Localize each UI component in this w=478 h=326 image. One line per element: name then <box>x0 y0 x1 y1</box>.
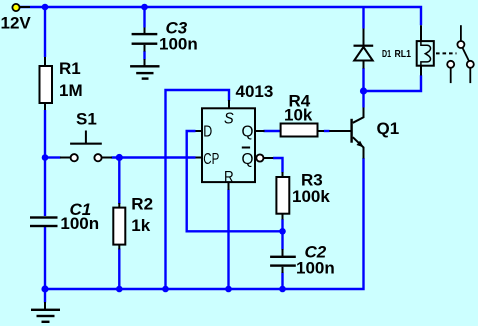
wire Q-pin to R4 <box>264 130 282 132</box>
svg-text:Q: Q <box>242 151 254 168</box>
svg-text:CP: CP <box>203 151 219 168</box>
node junction bus / ground <box>41 285 48 292</box>
wire diode bottom to node <box>362 68 364 91</box>
wire R3 bottom to node <box>281 219 283 250</box>
node junction left rail / S1 <box>42 154 49 161</box>
wire R2 bottom to bus <box>118 249 120 290</box>
relay RL1 coil <box>395 25 434 75</box>
pin CP label <box>203 151 219 168</box>
wire C3 drop from top bus <box>143 7 145 28</box>
pin Q label <box>242 123 254 140</box>
svg-text:10k: 10k <box>284 106 313 125</box>
pin Q-bar inversion bubble <box>256 154 263 161</box>
svg-text:RL1: RL1 <box>395 49 412 60</box>
capacitor C2 <box>270 243 335 278</box>
resistor R3 <box>276 171 330 220</box>
node junction bus / S-loop <box>162 286 169 293</box>
resistor R4 <box>255 92 324 137</box>
wire S-pin loop to bottom bus <box>166 90 230 289</box>
resistor R2 <box>113 194 153 249</box>
svg-text:R: R <box>224 169 234 186</box>
wire R2 top hang <box>118 158 120 205</box>
ground at bottom bus <box>31 302 60 323</box>
node junction diode / relay / collector <box>360 87 367 94</box>
pin R stub <box>228 182 230 190</box>
relay contact switch <box>447 25 474 83</box>
svg-text:1M: 1M <box>59 81 83 100</box>
wire S1 left stub from left rail <box>45 156 61 158</box>
resistor R1 <box>40 57 83 110</box>
svg-text:S: S <box>224 110 234 127</box>
pin CP stub <box>196 157 203 159</box>
transistor Q1 <box>329 108 399 159</box>
pin S stub <box>228 100 230 108</box>
wire left rail upper segment <box>44 7 46 57</box>
svg-text:4013: 4013 <box>236 82 274 101</box>
wire ground drop at bus left <box>44 289 46 303</box>
pin S label <box>224 110 234 127</box>
op-amp U1 4013 flip-flop body <box>202 82 273 182</box>
wire bottom bus and emitter rail <box>45 158 364 289</box>
svg-text:100n: 100n <box>296 258 335 277</box>
ground under C3 <box>130 59 159 80</box>
terminal 12V supply <box>1 4 32 33</box>
pin D stub <box>196 130 203 132</box>
pin Q-bar stub <box>264 157 274 159</box>
wire dashed relay actuator link <box>436 52 457 54</box>
node junction bus / C2 <box>279 286 286 293</box>
pin Q-bar label with overline <box>242 148 254 168</box>
wire C3 to ground segment <box>143 51 145 60</box>
wire diode top from bus <box>362 7 364 29</box>
svg-text:1k: 1k <box>131 216 150 235</box>
svg-text:D: D <box>203 123 212 140</box>
wire R4 to base segment <box>324 130 330 132</box>
node junction at top bus / C3 <box>141 4 148 11</box>
node junction bus / R2 <box>116 286 123 293</box>
svg-text:D1: D1 <box>382 49 391 60</box>
pin Q stub <box>255 130 265 132</box>
capacitor C1 <box>30 200 99 233</box>
node junction at 12V rail / left rail <box>42 4 49 11</box>
node junction S1 / R2 / CP <box>116 154 123 161</box>
wire D-pin loop to R3/C2 node <box>187 131 283 231</box>
wire S1 to CP pin <box>112 156 196 158</box>
pin D label <box>203 123 212 140</box>
wire top bus from 12V terminal to relay corner <box>16 7 421 25</box>
pin R label <box>224 169 234 186</box>
wire relay bottom to node horizontal <box>364 75 422 91</box>
svg-text:R2: R2 <box>131 194 153 213</box>
wire Q-bar bubble to R3 top <box>273 158 283 173</box>
wire left rail C1-to-bus segment <box>44 226 46 290</box>
diode D1 <box>354 29 392 69</box>
svg-text:R1: R1 <box>59 59 81 78</box>
svg-text:Q: Q <box>242 123 254 140</box>
node junction R3 / C2 / D-loop <box>279 228 286 235</box>
wire left rail R1-to-C1 segment <box>44 110 46 216</box>
capacitor C3 <box>132 19 198 54</box>
node junction bus / R-pin <box>225 286 232 293</box>
svg-text:100k: 100k <box>292 187 330 206</box>
svg-text:12V: 12V <box>1 14 32 33</box>
svg-text:100n: 100n <box>159 35 198 54</box>
svg-text:S1: S1 <box>76 109 97 128</box>
switch S1 push-button <box>60 109 112 161</box>
wire collector to node <box>362 91 364 108</box>
wire R-pin drop to bus <box>227 190 229 290</box>
svg-text:100n: 100n <box>60 214 99 233</box>
svg-text:Q1: Q1 <box>377 119 400 138</box>
wire C2 bottom to bus <box>281 273 283 290</box>
